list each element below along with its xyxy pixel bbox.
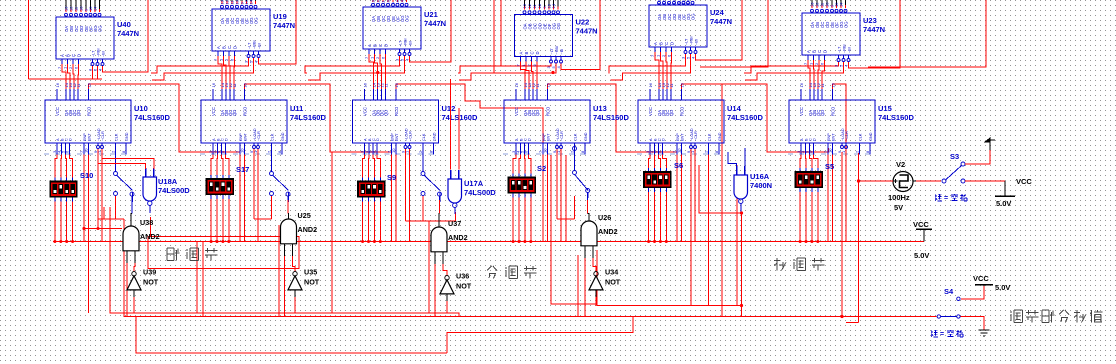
power VCC 5.0V (clock rail) (1004, 181, 1006, 196)
wire U14 ~CLR (694, 149, 696, 242)
wire riser x566 (565, 155, 567, 242)
svg-text:~CLR: ~CLR (845, 131, 849, 141)
svg-text:CLK: CLK (708, 133, 712, 141)
svg-text:7447N: 7447N (273, 21, 295, 30)
svg-text:U25: U25 (298, 211, 311, 220)
wire U15 ~LOAD drop (841, 152, 843, 317)
svg-text:C: C (378, 44, 383, 47)
svg-text:ENT: ENT (832, 133, 836, 141)
wire U24 B to QB (661, 52, 664, 89)
svg-text:14: 14 (93, 6, 98, 11)
svg-text:NOT: NOT (605, 278, 621, 287)
wire ~LT U19 (151, 58, 249, 73)
wire ~BI/RBO loop U19 (259, 0, 297, 64)
wire U10 ENT (88, 148, 90, 242)
label key=space (S3) 键 = 空格 (935, 194, 937, 201)
svg-text:~BI: ~BI (560, 49, 564, 55)
wire RCO chain col5 (682, 84, 829, 152)
svg-text:7447N: 7447N (117, 29, 139, 38)
wire U22 A to QA (521, 62, 526, 90)
wire DIP S5 pin4 to bus (817, 196, 819, 242)
svg-text:GND: GND (125, 132, 129, 141)
wire U10 B preset (60, 155, 63, 175)
svg-text:VCC: VCC (648, 107, 653, 116)
switch J col1 (115, 143, 117, 171)
wire DIP S9 pin3 to bus (373, 205, 375, 242)
power VCC 5.0V (S4) (983, 285, 985, 291)
wire U25 left input (284, 256, 286, 317)
svg-text:OG: OG (405, 15, 410, 22)
svg-text:ENP: ENP (83, 133, 87, 141)
svg-text:VCC: VCC (913, 220, 929, 229)
wire ~LT U23 (744, 62, 839, 73)
svg-text:~CLR: ~CLR (560, 131, 564, 141)
wire ~RBI U24 (611, 54, 691, 80)
svg-text:C: C (817, 50, 822, 53)
svg-text:7447N: 7447N (424, 19, 446, 28)
bus y316.5 (124, 219, 937, 317)
svg-text:AND2: AND2 (140, 232, 160, 241)
wire DIP S10 pin4 to bus (72, 205, 74, 242)
wire U14 A preset (649, 155, 650, 165)
wire U26 right input (593, 258, 596, 272)
NAND gate U18A 74LS00D (143, 177, 157, 201)
wire V2/CLK net x858.5 (858, 153, 860, 323)
wire DIP S17 pin4 to bus (228, 203, 230, 242)
NOT gate U34 (594, 272, 598, 276)
wire U10 A preset (55, 155, 57, 175)
wire riser x578 (577, 255, 579, 317)
bus ENT/VCC y241 (53, 241, 924, 243)
svg-text:U19: U19 (273, 12, 287, 21)
svg-text:S3: S3 (950, 152, 959, 161)
AND gate U26 AND2 (581, 221, 597, 246)
svg-text:GND: GND (718, 132, 722, 141)
NAND gate U17A 74LS00D (448, 179, 462, 203)
wire ~LT U40 (92, 66, 94, 79)
bus clock y305.5 (597, 305, 742, 307)
dashed net highlight under U14 (637, 153, 720, 155)
svg-text:A: A (60, 54, 65, 57)
wire U12 ENT (395, 148, 397, 242)
junction clock bus (740, 304, 743, 307)
svg-text:B: B (373, 44, 378, 47)
svg-text:7447N: 7447N (710, 17, 732, 26)
wire DIP S6 pin4 to bus (665, 196, 667, 242)
switch J col3 (422, 143, 424, 171)
svg-text:S17: S17 (236, 165, 249, 174)
wire U12 A preset (363, 155, 365, 175)
svg-text:RCO: RCO (243, 106, 248, 116)
wire load link col4 y219 (557, 218, 575, 220)
svg-text:U22: U22 (576, 18, 590, 27)
IC U11 74LS160D decade counter (201, 100, 287, 143)
svg-text:74LS160D: 74LS160D (878, 113, 914, 122)
wire U13 ENT (547, 148, 549, 242)
wire rail col4b (500, 0, 502, 67)
wire U16A inputs (728, 152, 737, 168)
svg-text:OG: OG (254, 17, 259, 24)
wire U11 B preset (216, 155, 219, 172)
wire U13 C preset (524, 155, 526, 171)
switch S4 (937, 315, 940, 318)
wire CLK col5 (708, 148, 710, 306)
svg-text:RCO: RCO (680, 106, 685, 116)
svg-text:7447N: 7447N (576, 27, 598, 36)
svg-text:~BI: ~BI (848, 47, 852, 53)
svg-text:GND: GND (281, 132, 285, 141)
svg-text:74LS160D: 74LS160D (442, 113, 478, 122)
dashed net highlight under U12 (352, 153, 435, 155)
wire U22 B to QB (526, 62, 529, 90)
wire rail col6b (868, 0, 986, 67)
svg-text:15: 15 (680, 82, 685, 87)
wire U15 ENT (832, 148, 834, 242)
svg-text:U38: U38 (140, 218, 153, 227)
wire RCO chain col3 (396, 84, 543, 148)
bus y313 (110, 207, 459, 317)
wire ~RBI U22 (459, 64, 556, 81)
svg-text:OG: OG (98, 25, 103, 32)
wire U11 D preset (226, 155, 229, 172)
wire switch common to U26 (586, 189, 590, 193)
svg-text:D: D (528, 138, 532, 141)
wire U14 D preset (663, 155, 667, 165)
svg-text:D: D (77, 54, 82, 57)
wire U38 left input (126, 263, 128, 317)
wire riser x551 (551, 155, 597, 304)
IC U10 74LS160D decade counter (45, 100, 131, 143)
svg-text:~LT: ~LT (838, 46, 842, 53)
wire ~BI/RBO loop U40 (103, 0, 149, 72)
svg-text:ENT: ENT (681, 133, 685, 141)
IC U13 74LS160D decade counter (504, 100, 590, 143)
svg-text:100Hz: 100Hz (888, 193, 910, 202)
wire DIP S10 pin2 to bus (60, 205, 62, 242)
svg-text:~RBI: ~RBI (843, 44, 847, 53)
svg-text:GND: GND (869, 132, 873, 141)
svg-text:C: C (227, 46, 232, 49)
wire DIP S6 pin2 to bus (654, 196, 656, 242)
svg-text:S5: S5 (825, 162, 834, 171)
svg-text:~RBI: ~RBI (404, 38, 408, 47)
svg-text:10: 10 (240, 148, 245, 153)
svg-text:5.0V: 5.0V (996, 199, 1011, 208)
svg-text:QD: QD (76, 110, 81, 116)
wire RCO chain col4 (548, 84, 678, 152)
svg-text:10: 10 (391, 148, 396, 153)
svg-text:U40: U40 (117, 20, 131, 29)
IC U15 74LS160D decade counter (789, 100, 875, 143)
svg-text:RCO: RCO (394, 106, 399, 116)
svg-text:74LS00D: 74LS00D (464, 188, 496, 197)
svg-text:ENP: ENP (391, 133, 395, 141)
svg-text:U15: U15 (878, 104, 892, 113)
wire U21 A to QA (369, 54, 374, 89)
wire load link col3 y221 (406, 220, 456, 222)
svg-text:U37: U37 (448, 219, 461, 228)
svg-text:ENT: ENT (547, 133, 551, 141)
wire U12 ~LOAD (405, 149, 407, 212)
wire U23 C to QC (818, 60, 819, 89)
wire U21 D to QD (385, 54, 387, 89)
wire riser x203 (202, 242, 204, 317)
svg-text:~RBI: ~RBI (690, 36, 694, 45)
wire ~BI/RBO loop U23 (849, 0, 901, 68)
wire U34 input from bus (595, 297, 597, 306)
svg-text:QD: QD (820, 110, 825, 116)
wire DIP S2 pin1 to bus (512, 201, 514, 242)
svg-text:5V: 5V (894, 203, 903, 212)
wire ~BI/RBO loop U24 (696, 0, 743, 60)
svg-text:VCC: VCC (514, 107, 519, 116)
ground symbol (979, 329, 990, 331)
svg-text:D: D (535, 51, 540, 54)
wire ~RBI U23 (745, 62, 844, 80)
svg-text:NOT: NOT (456, 282, 472, 291)
bus y353 (136, 317, 447, 354)
svg-text:S9: S9 (387, 173, 396, 182)
svg-text:74LS160D: 74LS160D (290, 113, 326, 122)
wire U25 right input (293, 256, 296, 272)
wire U11 C preset (222, 155, 223, 172)
svg-text:AND2: AND2 (448, 233, 468, 242)
wire S3 to VCC (965, 180, 1005, 182)
wire U22 C to QC (532, 62, 534, 90)
IC U21 7447N BCD to 7-seg decoder (363, 7, 421, 49)
wire U14 ENP (676, 148, 678, 242)
wire U19 D to QD (233, 56, 236, 89)
AND gate U37 AND2 (431, 227, 447, 252)
svg-text:B: B (222, 46, 227, 49)
DIP switch S9 (357, 181, 385, 198)
svg-text:~LT: ~LT (399, 40, 403, 47)
wire U12 ENP (391, 148, 393, 242)
wire U24 D to QD (670, 52, 673, 89)
IC U23 7447N BCD to 7-seg decoder (802, 13, 860, 55)
wire U13 D preset (529, 155, 531, 171)
wire U10 ENT ext (88, 242, 90, 314)
svg-text:CLK: CLK (271, 133, 275, 141)
svg-text:C: C (530, 51, 535, 54)
svg-text:CLK: CLK (115, 133, 119, 141)
wire U19 C to QC (229, 56, 230, 89)
wire U40 D to QD (77, 64, 80, 89)
svg-text:OG: OG (844, 21, 849, 28)
svg-text:~LT: ~LT (92, 50, 96, 57)
wire U15 B preset (805, 155, 808, 165)
wire riser x722 (721, 84, 723, 317)
svg-text:U13: U13 (593, 104, 607, 113)
svg-text:GND: GND (584, 132, 588, 141)
svg-text:=: = (944, 195, 948, 202)
wire rail left (28, 0, 30, 79)
svg-text:U18A: U18A (158, 177, 178, 186)
wire U37 left input (434, 264, 436, 317)
wire U11 ~CLR (257, 149, 259, 242)
wire U13 ~CLR (560, 149, 562, 242)
svg-text:5.0V: 5.0V (995, 283, 1010, 292)
svg-text:AND2: AND2 (298, 225, 318, 234)
wire DIP S9 pin4 to bus (379, 205, 381, 242)
wire U11 ENP (239, 148, 241, 242)
wire DIP S5 pin2 to bus (805, 196, 807, 242)
red frame around hour-adjust label (148, 237, 299, 269)
svg-text:~BI: ~BI (258, 43, 262, 49)
wire DIP S6 pin1 to bus (648, 196, 650, 242)
wire U37 right input (443, 264, 447, 276)
svg-text:S10: S10 (80, 171, 93, 180)
svg-text:ENP: ENP (827, 133, 831, 141)
svg-text:~RBI: ~RBI (253, 40, 257, 49)
wire U24 C to QC (666, 52, 667, 89)
wire U15 ENP (827, 148, 829, 242)
wire U10 ~LOAD (97, 149, 99, 229)
wire riser x597 (596, 250, 598, 306)
AND gate U25 AND2 (281, 219, 297, 244)
svg-text:QD: QD (384, 110, 389, 116)
IC U22 7447N BCD to 7-seg decoder (515, 15, 573, 57)
svg-text:7400N: 7400N (750, 181, 772, 190)
IC U40 7447N BCD to 7-seg decoder (56, 17, 114, 59)
svg-text:~CLR: ~CLR (101, 131, 105, 141)
NOT gate U35 (293, 272, 297, 276)
wire U15 ~CLR (845, 149, 847, 242)
wire U17A inputs (450, 79, 452, 170)
svg-text:14: 14 (839, 2, 844, 7)
svg-text:~LT: ~LT (685, 38, 689, 45)
svg-text:~LT: ~LT (550, 47, 554, 54)
wire U18A out (150, 217, 152, 237)
wire riser x332 (331, 152, 333, 313)
svg-text:RCO: RCO (546, 106, 551, 116)
wire U12 D preset (377, 155, 380, 175)
svg-text:U26: U26 (598, 213, 611, 222)
AND gate U38 AND2 (123, 226, 139, 251)
label set-value 调节时分秒值 (1010, 311, 1012, 313)
svg-text:U36: U36 (456, 272, 469, 281)
wire DIP S2 pin3 to bus (524, 201, 526, 242)
switch J col2 (271, 143, 273, 171)
svg-text:10: 10 (543, 148, 548, 153)
svg-text:VCC: VCC (211, 107, 216, 116)
wire U10 ENP (83, 148, 85, 242)
dashed net highlight under U15 (788, 153, 871, 155)
svg-text:D: D (376, 138, 380, 141)
svg-text:5.0V: 5.0V (914, 251, 929, 260)
svg-text:16: 16 (514, 82, 519, 87)
wire DIP S10 pin1 to bus (54, 205, 56, 242)
wire switch common to U37 (438, 192, 442, 196)
dashed net highlight under U10 (44, 153, 127, 155)
svg-text:16: 16 (648, 82, 653, 87)
svg-text:~BI: ~BI (409, 41, 413, 47)
svg-text:U17A: U17A (464, 179, 484, 188)
wire U15 A preset (799, 155, 802, 165)
wire switch common to U38 (130, 192, 134, 196)
svg-text:A: A (367, 44, 372, 47)
wire DIP S17 pin2 to bus (216, 203, 218, 242)
svg-text:D: D (670, 42, 675, 45)
svg-text:15: 15 (394, 82, 399, 87)
svg-text:RCO: RCO (831, 106, 836, 116)
wire U13 ~LOAD (556, 149, 558, 212)
svg-text:ENT: ENT (88, 133, 92, 141)
svg-text:S6: S6 (674, 161, 683, 170)
wire load link col1 y219 (98, 218, 124, 220)
NAND gate U16A 7400N (734, 175, 748, 199)
wire U10 D preset (70, 155, 73, 175)
wire V2 left (860, 180, 893, 182)
DIP switch S2 (508, 177, 536, 194)
svg-text:U12: U12 (442, 104, 456, 113)
wire U23 D to QD (822, 60, 825, 89)
wire DIP S6 pin3 to bus (659, 196, 661, 242)
wire U39 input from bus (133, 297, 135, 313)
svg-text:ENP: ENP (239, 133, 243, 141)
svg-text:S4: S4 (944, 287, 954, 296)
wire U15 D preset (814, 155, 818, 165)
wire DIP S2 pin4 to bus (530, 201, 532, 242)
svg-text:NOT: NOT (304, 278, 320, 287)
wire U21 B to QB (375, 54, 378, 89)
svg-text:74LS160D: 74LS160D (727, 113, 763, 122)
wire U21 C to QC (380, 54, 382, 89)
svg-text:V2: V2 (896, 160, 905, 169)
svg-text:VCC: VCC (363, 107, 368, 116)
svg-text:74LS00D: 74LS00D (158, 186, 190, 195)
svg-text:A: A (216, 46, 221, 49)
wire switch common to U25 (286, 192, 290, 196)
svg-text:16: 16 (363, 82, 368, 87)
svg-text:A: A (519, 52, 524, 55)
svg-text:10: 10 (677, 148, 682, 153)
svg-text:CLK: CLK (859, 133, 863, 141)
svg-text:QD: QD (669, 110, 674, 116)
wire riser x279 (278, 225, 280, 317)
wire U22 D to QD (536, 62, 538, 90)
svg-text:15: 15 (546, 82, 551, 87)
svg-text:15: 15 (87, 82, 92, 87)
wire ~RBI U40 (97, 66, 99, 79)
dashed net highlight under U13 (503, 153, 586, 155)
svg-text:D: D (813, 138, 817, 141)
IC U24 7447N BCD to 7-seg decoder (649, 5, 707, 47)
switch J col4 (573, 147, 577, 151)
svg-text:~CLR: ~CLR (257, 131, 261, 141)
wire ~RBI U19 (152, 58, 254, 80)
svg-text:OG: OG (691, 13, 696, 20)
svg-text:QD: QD (535, 110, 540, 116)
wire rail col4a (493, 0, 495, 74)
wire U18A inputs (98, 149, 146, 169)
svg-text:U23: U23 (863, 16, 877, 25)
wire DIP S9 pin1 to bus (362, 205, 364, 242)
svg-text:U24: U24 (710, 8, 725, 17)
wire U12 C preset (373, 155, 374, 175)
IC U12 74LS160D decade counter (353, 100, 439, 143)
wire RCO chain col1 (89, 84, 241, 152)
svg-text:D: D (384, 44, 389, 47)
DIP switch S5 (795, 171, 823, 188)
junction col3 QB (376, 71, 379, 74)
svg-text:16: 16 (55, 82, 60, 87)
svg-text:14: 14 (551, 3, 556, 8)
svg-text:14: 14 (249, 0, 254, 5)
wire U15 C preset (810, 155, 812, 165)
svg-text:VCC: VCC (799, 107, 804, 116)
svg-text:D: D (233, 46, 238, 49)
